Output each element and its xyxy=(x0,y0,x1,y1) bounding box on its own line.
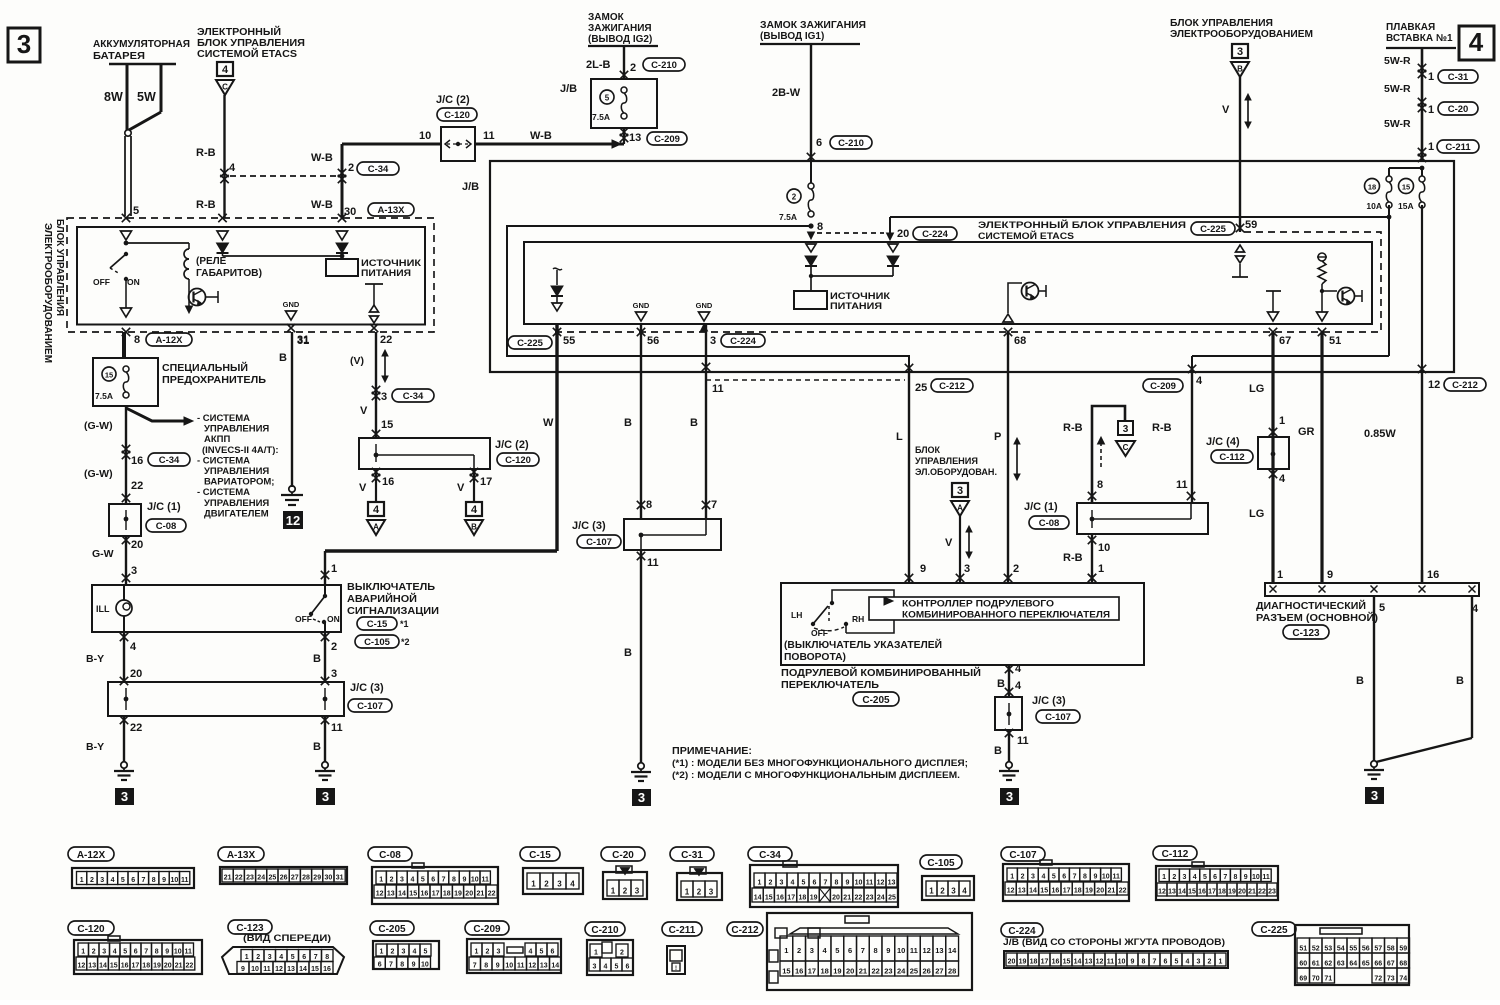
svg-text:3: 3 xyxy=(1006,789,1013,804)
wire R-B from ETACS ref xyxy=(223,95,225,218)
bent wire J/C(1) pin8 up to ref 3-C xyxy=(1092,406,1125,503)
svg-text:10: 10 xyxy=(471,877,479,884)
svg-text:6: 6 xyxy=(134,949,138,956)
svg-text:2: 2 xyxy=(1013,563,1019,575)
svg-text:ИСТОЧНИК: ИСТОЧНИК xyxy=(830,291,891,301)
svg-text:8: 8 xyxy=(400,962,404,969)
svg-text:52: 52 xyxy=(1312,946,1320,953)
svg-text:3: 3 xyxy=(593,964,597,971)
svg-text:8: 8 xyxy=(484,963,488,970)
svg-text:4: 4 xyxy=(111,877,115,884)
svg-text:12: 12 xyxy=(1096,959,1104,966)
svg-text:18: 18 xyxy=(820,967,828,976)
svg-text:7: 7 xyxy=(861,946,865,955)
svg-text:30: 30 xyxy=(325,875,333,882)
svg-text:5: 5 xyxy=(605,94,610,103)
svg-text:C-20: C-20 xyxy=(1448,104,1469,115)
wire 0.85W pin12 to diag pin16 xyxy=(1421,372,1423,583)
svg-text:22: 22 xyxy=(235,875,243,882)
connector table A-13X xyxy=(218,847,264,861)
svg-text:5: 5 xyxy=(291,954,295,961)
svg-text:20: 20 xyxy=(131,539,143,551)
svg-text:УПРАВЛЕНИЯ: УПРАВЛЕНИЯ xyxy=(204,466,269,477)
svg-text:- СИСТЕМА: - СИСТЕМА xyxy=(197,455,250,466)
svg-text:C-210: C-210 xyxy=(591,925,619,936)
svg-text:56: 56 xyxy=(1362,946,1370,953)
svg-text:15: 15 xyxy=(1402,183,1410,192)
svg-text:ДИАГНОСТИЧЕСКИЙ: ДИАГНОСТИЧЕСКИЙ xyxy=(1256,599,1366,612)
svg-text:21: 21 xyxy=(477,891,485,898)
svg-text:12: 12 xyxy=(1007,888,1015,895)
svg-text:2: 2 xyxy=(620,950,624,957)
svg-text:R-B: R-B xyxy=(1063,552,1083,564)
wire 2B-W xyxy=(810,44,812,161)
svg-text:(G-W): (G-W) xyxy=(84,468,113,480)
svg-text:11: 11 xyxy=(1176,479,1188,491)
svg-text:C-120: C-120 xyxy=(444,110,470,121)
dashed box БЛОК УПРАВЛЕНИЯ ЭЛЕКТРООБОРУДОВАНИЕМ xyxy=(67,218,434,332)
svg-text:A-12X: A-12X xyxy=(156,335,184,346)
svg-text:4: 4 xyxy=(130,641,137,653)
svg-text:ON: ON xyxy=(327,614,340,624)
svg-text:70: 70 xyxy=(1312,976,1320,983)
svg-text:5: 5 xyxy=(133,205,139,217)
wire LG pin67 to J/C(4) and diag pin1 xyxy=(1271,332,1274,583)
svg-text:(INVECS-II 4А/Т):: (INVECS-II 4А/Т): xyxy=(202,445,279,456)
svg-text:18: 18 xyxy=(142,963,150,970)
svg-text:3: 3 xyxy=(557,880,562,889)
svg-text:C-105: C-105 xyxy=(364,637,391,648)
svg-text:10: 10 xyxy=(251,966,259,973)
connector table C-210 xyxy=(585,922,625,936)
svg-text:2: 2 xyxy=(348,162,354,174)
page ref 3-A mid xyxy=(952,483,968,497)
svg-text:GR: GR xyxy=(1298,426,1315,438)
svg-text:ПЕРЕКЛЮЧАТЕЛЬ: ПЕРЕКЛЮЧАТЕЛЬ xyxy=(781,680,879,691)
svg-text:V: V xyxy=(457,482,465,494)
svg-text:B: B xyxy=(624,417,632,429)
svg-text:17: 17 xyxy=(787,895,795,902)
svg-text:!: ! xyxy=(675,966,677,972)
svg-text:15: 15 xyxy=(311,966,319,973)
svg-text:1: 1 xyxy=(1098,563,1104,575)
svg-text:25: 25 xyxy=(888,895,896,902)
svg-text:J/C (3): J/C (3) xyxy=(572,520,606,532)
svg-text:C-120: C-120 xyxy=(505,455,531,466)
svg-text:3: 3 xyxy=(710,335,716,347)
pin 7 entry with diode xyxy=(218,214,226,222)
svg-text:3: 3 xyxy=(1197,959,1201,966)
svg-text:5: 5 xyxy=(424,949,428,956)
svg-text:11: 11 xyxy=(712,383,724,395)
svg-text:P: P xyxy=(994,431,1001,443)
junction connector J/C(1) C-08 (right) xyxy=(1077,503,1208,534)
wire L pin25 to controller pin9 xyxy=(905,364,913,372)
svg-text:C-112: C-112 xyxy=(1162,849,1189,860)
wire B pin56 to J/C(3) pin8 xyxy=(640,324,642,519)
svg-text:4: 4 xyxy=(410,877,414,884)
svg-text:27: 27 xyxy=(291,875,299,882)
dashed arrow up beside R-B xyxy=(1100,442,1102,470)
connector table C-123 xyxy=(228,920,272,934)
turn signal switch bracket xyxy=(832,590,894,633)
junction connector J/C(3) C-107 (bottom left) xyxy=(108,682,344,716)
svg-text:R-B: R-B xyxy=(1152,422,1172,434)
svg-text:13: 13 xyxy=(1085,959,1093,966)
page ref box 3 (top-left) xyxy=(8,28,40,62)
svg-text:8: 8 xyxy=(452,877,456,884)
svg-text:9: 9 xyxy=(1244,874,1248,881)
svg-text:64: 64 xyxy=(1349,961,1357,968)
power source box ИСТОЧНИК ПИТАНИЯ (left) xyxy=(326,259,358,276)
svg-text:59: 59 xyxy=(1399,946,1407,953)
svg-text:11: 11 xyxy=(1107,959,1115,966)
svg-text:55: 55 xyxy=(1349,946,1357,953)
svg-text:19: 19 xyxy=(454,891,462,898)
svg-text:C-34: C-34 xyxy=(368,164,389,175)
svg-text:4: 4 xyxy=(373,504,380,516)
svg-text:C-225: C-225 xyxy=(1200,224,1227,235)
svg-text:7: 7 xyxy=(473,963,477,970)
svg-text:7: 7 xyxy=(1073,874,1077,881)
svg-text:12: 12 xyxy=(877,880,885,887)
svg-text:24: 24 xyxy=(257,875,265,882)
svg-text:3: 3 xyxy=(635,887,640,896)
svg-text:2: 2 xyxy=(1172,874,1176,881)
svg-text:60: 60 xyxy=(1299,961,1307,968)
svg-text:11: 11 xyxy=(647,557,659,569)
svg-text:66: 66 xyxy=(1374,961,1382,968)
svg-text:15: 15 xyxy=(1040,888,1048,895)
svg-text:8: 8 xyxy=(152,877,156,884)
svg-text:C-107: C-107 xyxy=(1045,712,1071,723)
svg-text:18: 18 xyxy=(1030,959,1038,966)
svg-text:3: 3 xyxy=(1031,874,1035,881)
svg-text:C-209: C-209 xyxy=(473,924,501,935)
svg-text:ЭЛЕКТРООБОРУДОВАНИЕМ: ЭЛЕКТРООБОРУДОВАНИЕМ xyxy=(42,223,53,363)
svg-text:17: 17 xyxy=(1208,889,1216,896)
svg-text:16: 16 xyxy=(776,895,784,902)
svg-text:7.5A: 7.5A xyxy=(592,112,610,122)
svg-text:ПРЕДОХРАНИТЕЛЬ: ПРЕДОХРАНИТЕЛЬ xyxy=(162,375,266,386)
svg-text:C-209: C-209 xyxy=(1150,381,1176,392)
svg-text:11: 11 xyxy=(1112,874,1120,881)
svg-text:5: 5 xyxy=(540,949,544,956)
parking relay РЕЛЕ ГАБАРИТОВ xyxy=(124,241,129,246)
svg-text:ПИТАНИЯ: ПИТАНИЯ xyxy=(830,301,882,311)
svg-text:3: 3 xyxy=(17,29,31,59)
svg-text:17: 17 xyxy=(480,476,492,488)
svg-text:- СИСТЕМА: - СИСТЕМА xyxy=(197,413,250,424)
svg-text:29: 29 xyxy=(313,875,321,882)
pin 8 exit (A-12X) xyxy=(122,328,130,336)
connector table C-211 xyxy=(662,922,702,936)
svg-text:69: 69 xyxy=(1299,976,1307,983)
svg-text:СИГНАЛИЗАЦИИ: СИГНАЛИЗАЦИИ xyxy=(347,606,439,617)
svg-text:21: 21 xyxy=(1108,888,1116,895)
svg-text:9: 9 xyxy=(846,880,850,887)
svg-text:4: 4 xyxy=(1015,680,1022,692)
svg-text:4: 4 xyxy=(604,964,608,971)
svg-text:53: 53 xyxy=(1324,946,1332,953)
connector table C-209 xyxy=(465,921,509,935)
svg-text:2: 2 xyxy=(256,954,260,961)
svg-text:C-224: C-224 xyxy=(1008,926,1036,937)
svg-text:2: 2 xyxy=(769,880,773,887)
connector table C-112 xyxy=(1153,846,1197,860)
svg-text:18: 18 xyxy=(1218,889,1226,896)
svg-text:L: L xyxy=(896,431,903,443)
wire V to pin 59 xyxy=(1239,77,1241,232)
svg-text:3: 3 xyxy=(402,949,406,956)
hazard switch ВЫКЛЮЧАТЕЛЬ АВАРИЙНОЙ СИГНАЛИЗАЦИИ box xyxy=(92,585,341,632)
svg-text:1: 1 xyxy=(1428,141,1434,153)
svg-text:(ВИД СПЕРЕДИ): (ВИД СПЕРЕДИ) xyxy=(243,933,331,944)
fuse 2 7.5A in J/B xyxy=(810,161,812,183)
svg-text:25: 25 xyxy=(269,875,277,882)
svg-text:10: 10 xyxy=(170,877,178,884)
svg-text:65: 65 xyxy=(1362,961,1370,968)
svg-text:B: B xyxy=(313,741,321,753)
ETACS internal diode pair from pins 8/20 xyxy=(806,244,816,252)
svg-text:18: 18 xyxy=(1368,183,1376,192)
svg-text:3: 3 xyxy=(638,790,645,805)
connector table C-34 xyxy=(748,847,792,861)
svg-text:1: 1 xyxy=(784,946,788,955)
svg-text:22: 22 xyxy=(131,480,143,492)
svg-text:13: 13 xyxy=(1168,889,1176,896)
svg-text:C-20: C-20 xyxy=(612,850,634,861)
svg-text:ЭЛЕКТРОННЫЙ БЛОК УПРАВЛЕНИЯ: ЭЛЕКТРОННЫЙ БЛОК УПРАВЛЕНИЯ xyxy=(978,219,1186,231)
svg-text:4: 4 xyxy=(529,949,533,956)
svg-text:20: 20 xyxy=(846,967,854,976)
junction block J/B (IG2 fuse 5) xyxy=(591,79,657,128)
svg-text:J/B (ВИД СО СТОРОНЫ ЖГУТА ПРОВ: J/B (ВИД СО СТОРОНЫ ЖГУТА ПРОВОДОВ) xyxy=(1003,937,1225,948)
svg-text:ВАРИАТОРОМ;: ВАРИАТОРОМ; xyxy=(204,477,274,488)
svg-text:63: 63 xyxy=(1337,961,1345,968)
svg-text:21: 21 xyxy=(859,967,867,976)
svg-text:3: 3 xyxy=(400,877,404,884)
svg-text:20: 20 xyxy=(832,895,840,902)
svg-text:54: 54 xyxy=(1337,946,1345,953)
svg-text:G-W: G-W xyxy=(92,548,114,560)
svg-text:4: 4 xyxy=(1279,473,1286,485)
fuse 18 10A xyxy=(1365,179,1380,194)
junction connector J/C(3) C-107 (middle) xyxy=(624,519,721,550)
svg-text:АВАРИЙНОЙ: АВАРИЙНОЙ xyxy=(347,592,417,605)
svg-text:АККУМУЛЯТОРНАЯ: АККУМУЛЯТОРНАЯ xyxy=(93,39,190,50)
svg-text:31: 31 xyxy=(336,875,344,882)
svg-text:V: V xyxy=(1222,104,1230,116)
svg-text:21: 21 xyxy=(224,875,232,882)
svg-text:1: 1 xyxy=(379,877,383,884)
svg-text:9: 9 xyxy=(496,963,500,970)
svg-text:15: 15 xyxy=(1188,889,1196,896)
svg-text:7: 7 xyxy=(1223,874,1227,881)
svg-text:1: 1 xyxy=(531,880,536,889)
svg-text:1: 1 xyxy=(929,887,934,896)
svg-text:B: B xyxy=(279,352,287,364)
svg-text:1: 1 xyxy=(1219,959,1223,966)
svg-text:4: 4 xyxy=(791,880,795,887)
svg-text:22: 22 xyxy=(488,891,496,898)
wire 5W xyxy=(160,64,163,112)
svg-text:20: 20 xyxy=(897,228,909,240)
svg-text:3: 3 xyxy=(268,954,272,961)
svg-text:7: 7 xyxy=(141,877,145,884)
connector capsule C-224 (pin20) xyxy=(913,227,957,240)
svg-text:1: 1 xyxy=(331,563,337,575)
wire W-B horizontal to J/C(2) xyxy=(342,143,441,146)
svg-text:16: 16 xyxy=(795,967,803,976)
column switch controller box xyxy=(781,583,1144,665)
svg-text:11: 11 xyxy=(866,880,874,887)
wire B to ground (middle) xyxy=(640,550,642,763)
svg-text:ПОДРУЛЕВОЙ КОМБИНИРОВАННЫЙ: ПОДРУЛЕВОЙ КОМБИНИРОВАННЫЙ xyxy=(781,666,981,679)
svg-text:6: 6 xyxy=(1213,874,1217,881)
connector table C-15 xyxy=(520,847,560,861)
svg-text:15: 15 xyxy=(381,419,393,431)
connector capsule C-205 xyxy=(853,692,899,706)
svg-text:C: C xyxy=(1123,443,1129,452)
svg-text:13: 13 xyxy=(540,963,548,970)
svg-text:5: 5 xyxy=(421,877,425,884)
svg-text:OFF: OFF xyxy=(811,628,828,638)
svg-text:B-Y: B-Y xyxy=(86,741,104,753)
svg-text:55: 55 xyxy=(563,335,575,347)
svg-text:67: 67 xyxy=(1279,335,1291,347)
wire B-Y hazard pin4 to J/C(3) xyxy=(120,633,128,641)
svg-text:13: 13 xyxy=(287,966,295,973)
svg-text:4: 4 xyxy=(471,504,478,516)
svg-text:1: 1 xyxy=(1010,874,1014,881)
wire GR pin51 to diag pin9 xyxy=(1320,332,1323,583)
svg-text:15A: 15A xyxy=(1398,201,1414,211)
svg-text:LG: LG xyxy=(1249,383,1264,395)
svg-text:24: 24 xyxy=(897,967,906,976)
svg-text:22: 22 xyxy=(130,722,142,734)
connector table C-120 xyxy=(68,921,114,935)
svg-text:19: 19 xyxy=(833,967,841,976)
svg-text:ЭЛЕКТРОННЫЙ: ЭЛЕКТРОННЫЙ xyxy=(197,25,281,38)
svg-text:15: 15 xyxy=(765,895,773,902)
svg-text:A: A xyxy=(957,504,963,513)
svg-text:15: 15 xyxy=(105,371,113,380)
svg-text:J/B: J/B xyxy=(462,181,479,193)
svg-text:10: 10 xyxy=(174,949,182,956)
svg-text:4: 4 xyxy=(279,954,283,961)
svg-text:11: 11 xyxy=(517,963,525,970)
svg-text:C-209: C-209 xyxy=(654,134,680,145)
svg-text:A: A xyxy=(373,523,379,532)
svg-text:B: B xyxy=(471,523,477,532)
ETACS internal contact at pin 67 xyxy=(1266,290,1281,292)
svg-text:4: 4 xyxy=(222,64,229,76)
wire P pin68 to controller pin2 xyxy=(1007,332,1009,583)
svg-text:23: 23 xyxy=(1268,889,1276,896)
svg-text:8: 8 xyxy=(325,954,329,961)
svg-text:22: 22 xyxy=(1119,888,1127,895)
svg-text:5: 5 xyxy=(1379,602,1385,614)
svg-text:68: 68 xyxy=(1014,335,1026,347)
svg-text:14: 14 xyxy=(1074,959,1082,966)
svg-text:2: 2 xyxy=(697,888,702,897)
svg-text:14: 14 xyxy=(1029,888,1037,895)
diagnostic connector C-123 box xyxy=(1265,583,1479,596)
svg-text:74: 74 xyxy=(1399,976,1407,983)
svg-text:C-211: C-211 xyxy=(1445,142,1471,153)
wire B to ground (below J/C3) xyxy=(321,716,329,724)
svg-text:ВСТАВКА №1: ВСТАВКА №1 xyxy=(1386,33,1453,44)
svg-text:8: 8 xyxy=(1097,479,1103,491)
svg-text:7.5A: 7.5A xyxy=(779,212,797,222)
svg-text:3: 3 xyxy=(131,565,137,577)
svg-text:9: 9 xyxy=(886,946,890,955)
svg-text:10: 10 xyxy=(897,946,905,955)
svg-text:6: 6 xyxy=(302,954,306,961)
svg-text:7: 7 xyxy=(711,499,717,511)
svg-text:3: 3 xyxy=(951,887,956,896)
svg-text:ЗАМОК ЗАЖИГАНИЯ: ЗАМОК ЗАЖИГАНИЯ xyxy=(760,20,866,31)
svg-text:5: 5 xyxy=(802,880,806,887)
fusible link wire to pin 5 xyxy=(125,130,131,136)
svg-text:2: 2 xyxy=(331,641,337,653)
svg-text:J/C (2): J/C (2) xyxy=(495,439,529,451)
svg-text:12: 12 xyxy=(78,963,86,970)
svg-text:B: B xyxy=(690,417,698,429)
svg-text:18: 18 xyxy=(1074,888,1082,895)
connector capsule A-13X xyxy=(368,203,414,216)
svg-text:14: 14 xyxy=(754,895,762,902)
ETACS internal antenna symbol at 59 xyxy=(1236,245,1245,252)
svg-text:9: 9 xyxy=(162,877,166,884)
svg-text:7.5A: 7.5A xyxy=(95,391,113,401)
svg-text:7: 7 xyxy=(442,877,446,884)
svg-text:24: 24 xyxy=(877,895,885,902)
svg-text:57: 57 xyxy=(1374,946,1382,953)
svg-text:15: 15 xyxy=(1063,959,1071,966)
svg-text:62: 62 xyxy=(1324,961,1332,968)
svg-text:4: 4 xyxy=(229,162,236,174)
special fuse СПЕЦИАЛЬНЫЙ ПРЕДОХРАНИТЕЛЬ xyxy=(93,358,158,406)
svg-text:*1: *1 xyxy=(400,619,409,629)
svg-text:10: 10 xyxy=(1102,874,1110,881)
svg-text:1: 1 xyxy=(1277,569,1283,581)
svg-text:11: 11 xyxy=(1262,874,1270,881)
svg-text:6: 6 xyxy=(626,964,630,971)
svg-text:20: 20 xyxy=(1096,888,1104,895)
svg-text:W: W xyxy=(543,417,554,429)
svg-text:10: 10 xyxy=(421,962,429,969)
svg-text:22: 22 xyxy=(380,334,392,346)
svg-text:8: 8 xyxy=(1083,874,1087,881)
svg-text:23: 23 xyxy=(884,967,892,976)
svg-text:C: C xyxy=(222,83,228,92)
svg-text:ЭЛ.ОБОРУДОВАН.: ЭЛ.ОБОРУДОВАН. xyxy=(915,467,997,477)
svg-text:C-210: C-210 xyxy=(651,60,677,71)
svg-text:68: 68 xyxy=(1399,961,1407,968)
svg-text:4: 4 xyxy=(1186,959,1190,966)
svg-text:C-107: C-107 xyxy=(586,537,612,548)
svg-text:ПОВОРОТА): ПОВОРОТА) xyxy=(784,652,846,663)
svg-text:2: 2 xyxy=(623,887,628,896)
svg-text:2B-W: 2B-W xyxy=(772,87,801,99)
svg-text:АКПП: АКПП xyxy=(204,434,230,445)
controller label box xyxy=(869,597,1119,620)
svg-text:2: 2 xyxy=(390,877,394,884)
svg-text:12: 12 xyxy=(376,891,384,898)
svg-text:4: 4 xyxy=(1015,663,1022,675)
